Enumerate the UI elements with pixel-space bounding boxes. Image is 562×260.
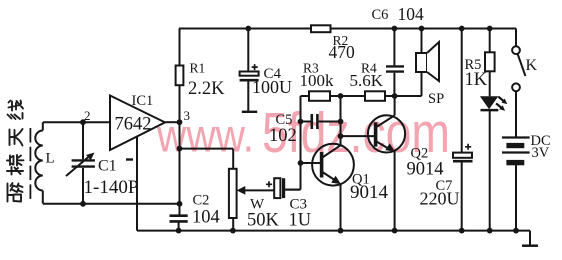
potentiometer W xyxy=(229,169,237,218)
transistor Q1 xyxy=(312,144,354,186)
char 棒 xyxy=(7,155,24,175)
transistor Q2 xyxy=(368,115,405,152)
wire C1 column xyxy=(82,122,84,204)
svg-text:2.2K: 2.2K xyxy=(188,79,225,99)
svg-text:5.6K: 5.6K xyxy=(350,71,384,90)
watermark www.5fdz.com xyxy=(156,101,450,165)
Q1 emitter arrowhead xyxy=(331,176,341,184)
svg-text:K: K xyxy=(526,57,538,74)
svg-text:104: 104 xyxy=(398,4,425,24)
ground bar under C4 xyxy=(242,111,257,113)
svg-text:7642: 7642 xyxy=(115,115,152,135)
capacitor C6 xyxy=(393,29,395,97)
wire R1 bottom to pin3 node xyxy=(179,85,181,122)
capacitor C5 xyxy=(301,121,341,123)
svg-text:102: 102 xyxy=(269,126,297,146)
potentiometer wiper arrow xyxy=(244,189,274,191)
ground symbol right xyxy=(522,244,538,247)
char 天 xyxy=(10,129,23,146)
Q2 emitter arrowhead xyxy=(385,143,395,151)
LED light arrow 1 xyxy=(498,96,508,104)
wire Q1 base node vertical xyxy=(285,96,300,190)
wire pin2 input xyxy=(43,121,110,123)
resistor R1 xyxy=(176,66,184,86)
capacitor C3 electrolytic xyxy=(274,178,280,198)
svg-text:3: 3 xyxy=(184,108,191,123)
svg-text:100k: 100k xyxy=(300,71,335,90)
wire bottom ground rail xyxy=(137,231,530,245)
LED triangle xyxy=(480,96,498,109)
wire pin3 node down and branch to pot xyxy=(180,122,234,214)
svg-text:470: 470 xyxy=(329,42,356,62)
wire Q1 base lead xyxy=(301,162,321,164)
ferrite core dashed line xyxy=(29,128,31,199)
capacitor C4 xyxy=(240,72,259,76)
capacitor C2 xyxy=(170,214,188,217)
wire pin3 output xyxy=(165,121,180,123)
wire IC ground pin xyxy=(136,136,138,230)
resistor R2 xyxy=(311,25,331,32)
char 线 xyxy=(8,101,24,120)
svg-text:1-140P: 1-140P xyxy=(84,177,139,198)
svg-text:104: 104 xyxy=(192,207,220,227)
svg-text:2: 2 xyxy=(84,108,91,123)
svg-text:C1: C1 xyxy=(98,158,117,175)
wire Q2 base lead xyxy=(341,135,375,137)
wire R1 column top xyxy=(179,29,181,66)
inductor L coil xyxy=(42,122,44,204)
svg-text:IC1: IC1 xyxy=(132,93,154,109)
LED light arrow 2 xyxy=(495,102,505,110)
svg-text:L: L xyxy=(46,151,55,167)
LED cathode bar and lead xyxy=(481,109,499,112)
vertical label 磁棒天线 (hand drawn strokes, rotated) xyxy=(7,101,24,202)
C1 arrow head xyxy=(86,153,94,161)
char 磁 xyxy=(8,183,23,202)
switch K xyxy=(515,29,517,47)
wire antenna bottom xyxy=(43,203,180,205)
IC1 minus pin label xyxy=(126,158,133,160)
resistor R5 xyxy=(489,29,491,53)
resistor R3 xyxy=(301,95,310,97)
wire C4 column xyxy=(247,29,249,112)
resistor R4 xyxy=(365,91,385,101)
svg-text:SP: SP xyxy=(428,91,444,107)
speaker SP xyxy=(421,29,423,97)
svg-text:C2: C2 xyxy=(193,192,210,208)
IC1 op-amp triangle xyxy=(110,96,165,151)
arrowheads and filled parts xyxy=(86,96,507,195)
battery DC 3V xyxy=(502,136,530,138)
svg-text:100U: 100U xyxy=(252,77,292,97)
pot wiper arrowhead xyxy=(237,186,246,195)
svg-text:3V: 3V xyxy=(532,145,550,161)
svg-text:50K: 50K xyxy=(247,211,280,231)
svg-text:1K: 1K xyxy=(465,70,488,90)
svg-text:9014: 9014 xyxy=(407,160,444,180)
wire Q1 collector vertical xyxy=(340,96,342,145)
svg-text:9014: 9014 xyxy=(350,182,389,203)
svg-text:C6: C6 xyxy=(372,7,389,23)
svg-text:www.: www. xyxy=(156,110,254,162)
svg-text:220U: 220U xyxy=(420,189,460,209)
wire top supply rail xyxy=(179,28,516,30)
svg-text:R1: R1 xyxy=(190,61,206,76)
svg-text:1U: 1U xyxy=(289,211,312,231)
capacitor C1 variable xyxy=(72,159,95,161)
capacitor C7 electrolytic xyxy=(461,29,463,231)
